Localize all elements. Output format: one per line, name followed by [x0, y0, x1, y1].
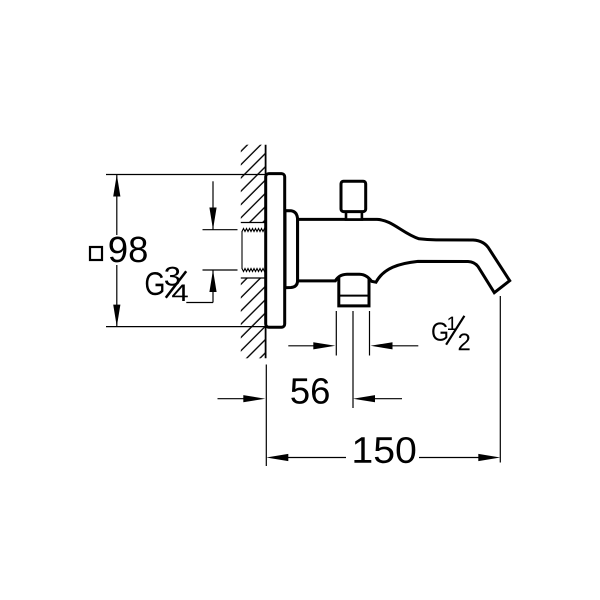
threaded pipe G3/4 [242, 229, 266, 272]
G1/2 left arrow [288, 342, 335, 349]
dim 98: top extension line [106, 174, 265, 176]
label 56 [291, 378, 329, 404]
label G3/4 [146, 267, 188, 301]
ext line nut right [369, 311, 371, 356]
label 150 [354, 437, 415, 463]
faucet: knob neck [346, 211, 362, 220]
ext line nut left [335, 311, 337, 356]
G3/4 dim: top tick [203, 229, 238, 231]
G3/4 dim: bottom tick [203, 269, 238, 271]
faucet: body and spout silhouette [298, 219, 510, 292]
dim 98: bottom extension line [106, 326, 265, 328]
dim 98: vertical dimension line with arrows [113, 175, 120, 327]
dim 150 line [266, 454, 500, 461]
square symbol [90, 247, 102, 260]
ext line spout tip [499, 296, 501, 463]
faucet: collar ring [285, 211, 298, 288]
wall face line [265, 145, 267, 359]
wall lower hatched block [241, 278, 266, 358]
G3/4 dim: upper down-arrow [209, 181, 216, 229]
ext line outlet center [352, 311, 354, 408]
faucet: wall flange [266, 174, 285, 328]
label 98 [110, 237, 147, 263]
label G1/2 [432, 316, 469, 350]
G1/2 right arrow [371, 342, 419, 349]
G3/4 dim: lower up-arrow with leader [186, 270, 216, 303]
faucet: diverter knob [341, 181, 366, 211]
ext line wall face below [265, 365, 267, 467]
faucet: nut G1/2 below body [339, 278, 369, 306]
wall upper hatched block [241, 145, 266, 223]
dim 56 line [218, 395, 403, 402]
